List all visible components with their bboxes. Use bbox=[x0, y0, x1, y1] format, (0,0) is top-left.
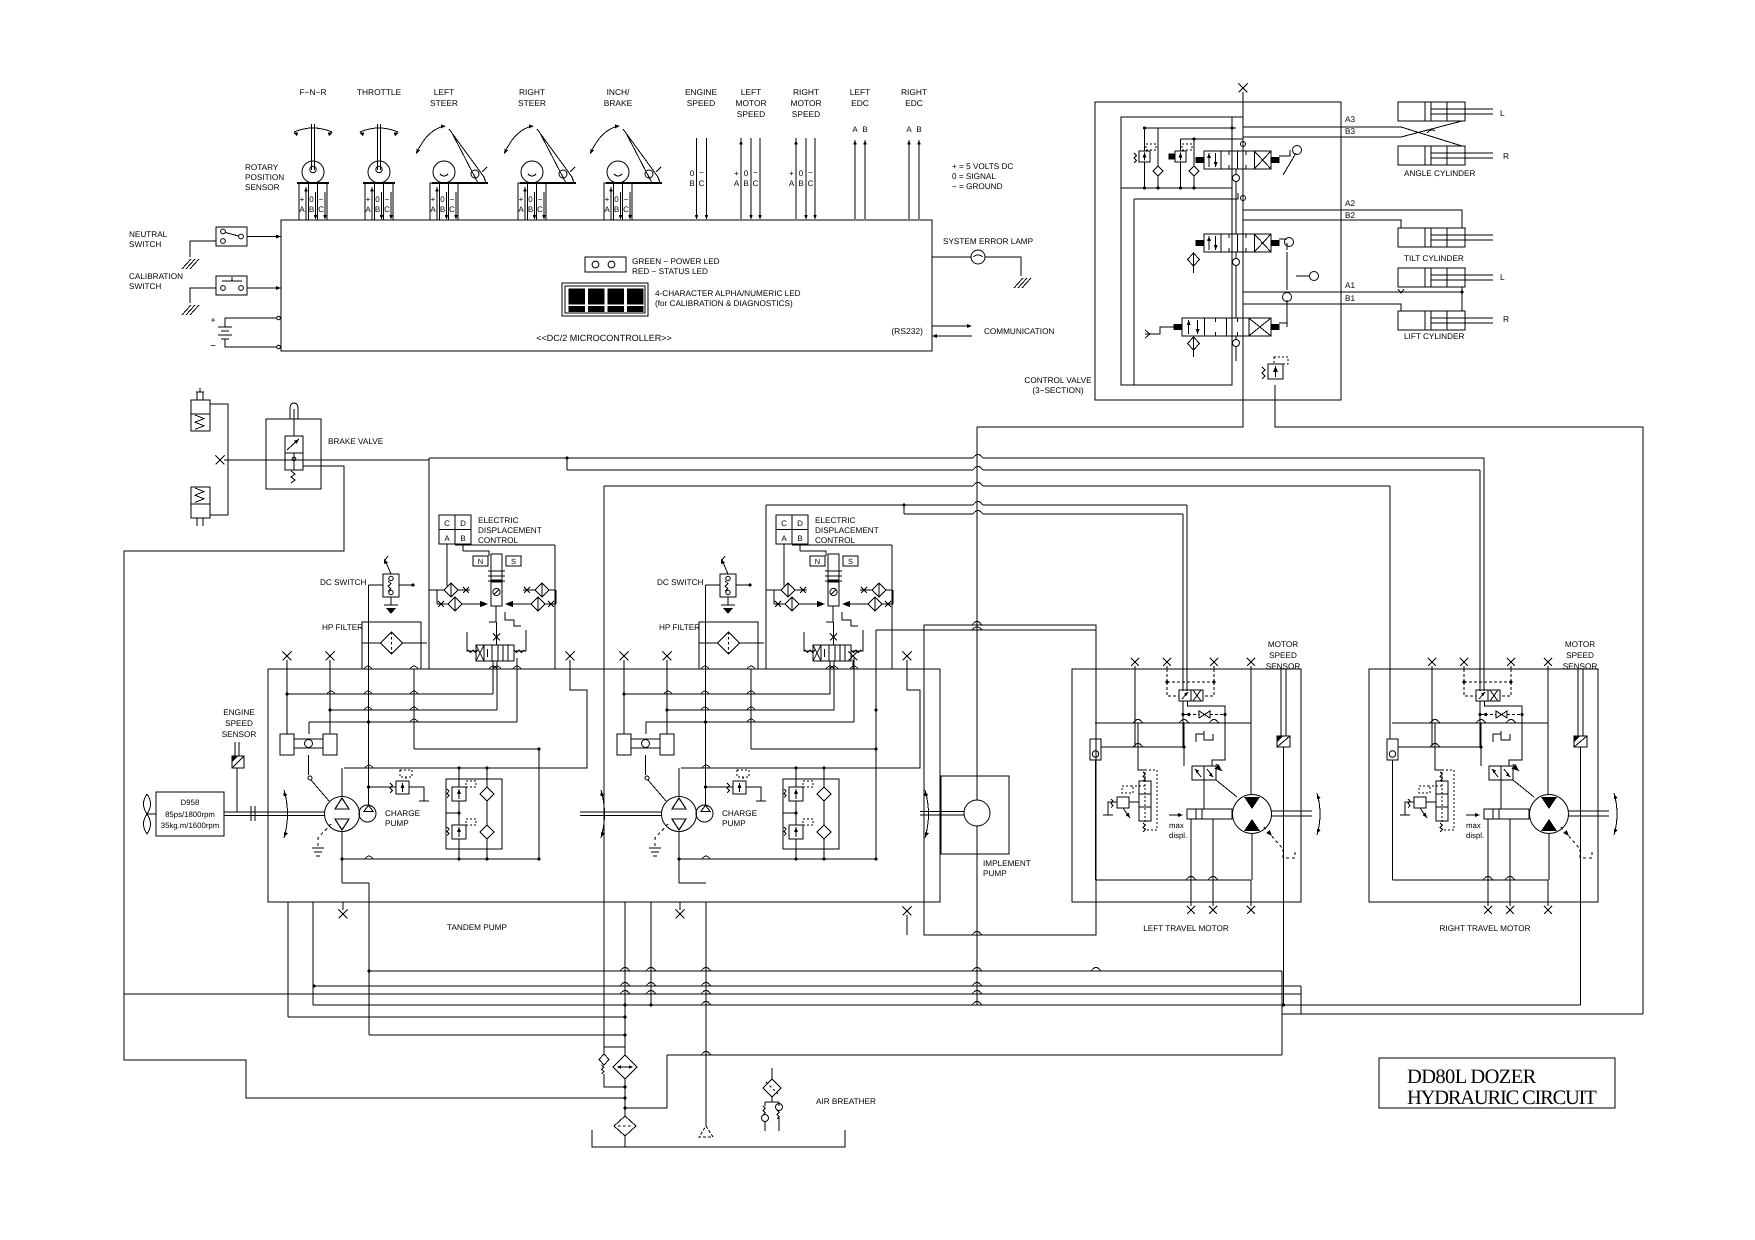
svg-text:A: A bbox=[852, 125, 858, 134]
internal divider drain x604 bbox=[603, 486, 605, 1048]
pilot steps bbox=[489, 606, 496, 622]
right rotation arcs bbox=[1614, 793, 1617, 835]
left motor M circle bbox=[1233, 795, 1272, 834]
svg-text:B: B bbox=[614, 205, 619, 214]
left bottom bus bbox=[1096, 879, 1252, 881]
row interconnects bbox=[436, 590, 438, 604]
sensor wires bbox=[610, 187, 612, 220]
DC switch left wire to bus bbox=[369, 584, 384, 586]
DC switch actuator arrow bbox=[722, 560, 728, 574]
solenoid armature bbox=[491, 554, 502, 580]
svg-text:0: 0 bbox=[690, 169, 695, 178]
pump P2 top edge hops bbox=[701, 666, 709, 669]
svg-text:+: + bbox=[605, 195, 610, 204]
sensor wires bbox=[524, 187, 526, 220]
svg-text:B: B bbox=[309, 205, 314, 214]
svg-text:B: B bbox=[862, 125, 867, 134]
svg-text:POSITION: POSITION bbox=[245, 173, 284, 182]
left displacement valve bbox=[1192, 766, 1216, 780]
svg-text:−: − bbox=[808, 168, 813, 177]
left throttle check bowtie bbox=[1199, 711, 1205, 718]
DC switch ground bbox=[390, 597, 392, 605]
left counterbalance relief bbox=[1117, 797, 1129, 808]
brake accumulator 1 bbox=[191, 400, 210, 414]
DC switch actuator arrow bbox=[385, 560, 391, 574]
implement pump box bbox=[941, 776, 1009, 854]
left left inner vertical bbox=[1134, 723, 1136, 747]
svg-text:C: C bbox=[781, 519, 787, 528]
air breather bbox=[763, 1079, 781, 1097]
svg-text:ENGINE: ENGINE bbox=[685, 87, 718, 97]
svg-text:C: C bbox=[808, 179, 814, 188]
communication port wires bbox=[932, 325, 970, 327]
svg-text:STEER: STEER bbox=[518, 98, 546, 108]
svg-text:(RS232): (RS232) bbox=[891, 326, 923, 336]
engine fan bbox=[144, 794, 151, 814]
svg-text:A3: A3 bbox=[1345, 115, 1355, 124]
svg-text:−: − bbox=[753, 168, 758, 177]
pump P1 main pump circle bbox=[325, 797, 360, 832]
pump P2 charge pump bbox=[696, 805, 713, 822]
right servo feed bbox=[1500, 780, 1502, 809]
row interconnects bbox=[773, 590, 775, 604]
brake valve V1 bbox=[266, 419, 321, 489]
svg-text:MOTOR: MOTOR bbox=[1268, 640, 1298, 649]
control valve inner box bbox=[1121, 117, 1232, 385]
position sensor box bbox=[430, 183, 458, 220]
pump P1 bus lines bbox=[287, 693, 493, 695]
left swash diagonal bbox=[1216, 780, 1237, 797]
svg-text:MOTOR: MOTOR bbox=[790, 98, 821, 108]
hand lever 2 bbox=[1279, 238, 1287, 240]
svg-text:IMPLEMENT: IMPLEMENT bbox=[983, 859, 1031, 868]
svg-text:HYDRAURIC CIRCUIT: HYDRAURIC CIRCUIT bbox=[1407, 1087, 1597, 1109]
svg-text:+: + bbox=[431, 195, 436, 204]
left pilot steps bbox=[1196, 734, 1204, 742]
pump P2 bus crossing hops bbox=[664, 691, 672, 694]
valve drop wires bbox=[829, 661, 831, 694]
svg-text:0: 0 bbox=[309, 195, 314, 204]
flushing line y486 to right motor bbox=[604, 485, 973, 487]
svg-text:SPEED: SPEED bbox=[1566, 651, 1594, 660]
svg-text:TILT CYLINDER: TILT CYLINDER bbox=[1404, 254, 1464, 263]
tank outline bbox=[592, 1130, 845, 1147]
svg-text:BRAKE VALVE: BRAKE VALVE bbox=[328, 437, 384, 446]
left sensor drain bbox=[1283, 747, 1285, 902]
svg-text:CALIBRATION: CALIBRATION bbox=[129, 272, 183, 281]
svg-text:+: + bbox=[366, 195, 371, 204]
valve section 3 angle bbox=[1204, 151, 1271, 169]
pilot feed X bbox=[830, 634, 837, 641]
left rotation arcs bbox=[1317, 793, 1320, 835]
svg-text:SWITCH: SWITCH bbox=[129, 240, 161, 249]
svg-text:ENGINE: ENGINE bbox=[223, 708, 255, 717]
svg-text:SENSOR: SENSOR bbox=[222, 730, 257, 739]
pump P1 charge pump bbox=[359, 805, 376, 822]
svg-text:A: A bbox=[906, 125, 912, 134]
left cb feed bbox=[1138, 723, 1145, 770]
svg-text:EDC: EDC bbox=[905, 98, 923, 108]
pump 2 shaft bbox=[580, 811, 662, 813]
valve side hooks bbox=[804, 632, 813, 651]
svg-text:+: + bbox=[300, 195, 305, 204]
svg-text:0: 0 bbox=[744, 169, 749, 178]
svg-text:D: D bbox=[460, 519, 466, 528]
left case drain bbox=[1264, 827, 1283, 849]
svg-text:ANGLE CYLINDER: ANGLE CYLINDER bbox=[1404, 169, 1476, 178]
pump P2 relief drain bbox=[746, 787, 761, 801]
right output shaft bbox=[1569, 810, 1610, 812]
svg-text:B3: B3 bbox=[1345, 127, 1355, 136]
svg-text:A: A bbox=[444, 534, 450, 543]
svg-text:DC SWITCH: DC SWITCH bbox=[657, 578, 703, 587]
pilot wiring upper-left bbox=[1144, 128, 1146, 151]
EDC EDC2 check diamond rows bbox=[766, 589, 781, 591]
svg-text:A1: A1 bbox=[1345, 281, 1355, 290]
svg-text:A: A bbox=[781, 534, 787, 543]
svg-text:SENSOR: SENSOR bbox=[1563, 662, 1598, 671]
accumulator wiring bbox=[210, 404, 228, 515]
left servo feed bbox=[1203, 780, 1205, 809]
pump2 drain drops bbox=[624, 902, 626, 1056]
right cb link bbox=[1426, 801, 1436, 803]
position sensor box bbox=[299, 183, 327, 220]
svg-text:R: R bbox=[1503, 151, 1509, 161]
svg-text:CONTROL: CONTROL bbox=[478, 536, 518, 545]
DC switch left wire to bus bbox=[706, 584, 721, 586]
pump1 work line A with test jog bbox=[344, 660, 587, 768]
pump P1 bus crossing hops bbox=[327, 691, 335, 694]
y1098 connect bbox=[610, 1097, 625, 1099]
svg-text:COMMUNICATION: COMMUNICATION bbox=[984, 327, 1054, 336]
pump P2 double check valve box bbox=[783, 779, 839, 849]
svg-text:0: 0 bbox=[528, 195, 533, 204]
svg-text:(3−SECTION): (3−SECTION) bbox=[1032, 386, 1083, 395]
pump P1 relief drain bbox=[409, 787, 424, 801]
svg-text:SPEED: SPEED bbox=[225, 719, 253, 728]
relief valve RV2 bbox=[1175, 151, 1186, 162]
right motor M circle bbox=[1530, 795, 1569, 834]
charge supply line y470 to right motor bbox=[565, 456, 568, 459]
bottom relief valve RV3 bbox=[1268, 364, 1283, 379]
pump P2 case drain dashes bbox=[655, 824, 668, 848]
svg-text:PUMP: PUMP bbox=[722, 819, 746, 828]
right pilot steps bbox=[1493, 734, 1501, 742]
svg-text:SWITCH: SWITCH bbox=[129, 282, 161, 291]
pilot steps bbox=[826, 606, 833, 622]
svg-text:CHARGE: CHARGE bbox=[722, 809, 758, 818]
EDC EDC2 table wires bbox=[783, 544, 785, 586]
svg-text:−: − bbox=[210, 341, 216, 352]
pump P2 charge line bbox=[705, 722, 707, 805]
svg-text:STEER: STEER bbox=[430, 98, 458, 108]
brake valve main line bbox=[224, 459, 429, 461]
svg-text:C: C bbox=[384, 205, 390, 214]
shaft rotation arc bbox=[284, 790, 288, 838]
svg-text:S: S bbox=[848, 557, 853, 566]
electric displacement control EDC1 table bbox=[439, 515, 471, 544]
pump P2 check box wires bbox=[795, 779, 797, 787]
svg-text:BRAKE: BRAKE bbox=[604, 98, 633, 108]
left counterbalance valve bbox=[1139, 781, 1151, 821]
svg-text:RIGHT TRAVEL MOTOR: RIGHT TRAVEL MOTOR bbox=[1440, 924, 1531, 933]
svg-text:C: C bbox=[537, 205, 543, 214]
right X stubs top bbox=[1431, 666, 1433, 669]
hops bottom bbox=[972, 968, 982, 972]
left shuttle valve bbox=[1090, 739, 1101, 760]
ground bbox=[1013, 278, 1031, 288]
svg-text:HP FILTER: HP FILTER bbox=[659, 623, 700, 632]
svg-text:L: L bbox=[1500, 272, 1505, 282]
right speed sensor bbox=[1574, 736, 1587, 747]
svg-text:TANDEM PUMP: TANDEM PUMP bbox=[447, 923, 507, 932]
svg-text:LEFT: LEFT bbox=[434, 87, 454, 97]
svg-text:B: B bbox=[528, 205, 533, 214]
sensor drain junctions bbox=[1282, 1003, 1285, 1006]
svg-text:GREEN − POWER LED: GREEN − POWER LED bbox=[632, 257, 720, 266]
svg-text:D: D bbox=[797, 519, 803, 528]
return filter bypass bbox=[604, 1046, 625, 1048]
pump2 work line A with test jog bbox=[681, 660, 920, 768]
svg-text:LEFT: LEFT bbox=[741, 87, 761, 97]
pump P2 pilot bus y749 bbox=[751, 748, 876, 750]
svg-text:+: + bbox=[210, 315, 215, 325]
angle cylinder L bbox=[1398, 102, 1465, 121]
pump P2 drain to bottom bbox=[679, 882, 706, 884]
solenoid armature bbox=[828, 554, 839, 580]
valve section 1 lift with float bbox=[1182, 318, 1271, 336]
EDC EDC1 table wires bbox=[446, 544, 448, 586]
right brake valve bbox=[1476, 690, 1500, 701]
pump P1 check box wires bbox=[458, 779, 460, 787]
svg-text:−: − bbox=[385, 195, 390, 204]
svg-text:ELECTRIC: ELECTRIC bbox=[815, 516, 856, 525]
tank header y1055 bbox=[667, 1054, 1282, 1056]
title block bbox=[1379, 1058, 1615, 1108]
internal gallery lines bbox=[1242, 92, 1244, 102]
implement pump circle bbox=[964, 800, 990, 826]
svg-text:D958: D958 bbox=[181, 798, 200, 807]
left brake valve outlet bbox=[1188, 701, 1226, 766]
sensor wires bbox=[371, 187, 373, 220]
valve section 2 tilt bbox=[1204, 234, 1271, 252]
position sensor box bbox=[604, 183, 632, 220]
pump P2 main pump circle bbox=[662, 797, 697, 832]
left vertical feeds bbox=[1134, 669, 1136, 723]
electric displacement control EDC2 table bbox=[776, 515, 808, 544]
drain line y971 bbox=[367, 969, 370, 972]
relief valve RV1 bbox=[1139, 151, 1150, 162]
svg-text:RED − STATUS LED: RED − STATUS LED bbox=[632, 267, 708, 276]
right drain jog bbox=[1281, 971, 1283, 1014]
supply line y514 to left motor bbox=[902, 503, 905, 506]
neutral switch wiring bbox=[190, 241, 216, 257]
pilot feed X bbox=[493, 634, 500, 641]
svg-text:A: A bbox=[518, 205, 524, 214]
right cb feed bbox=[1435, 723, 1442, 770]
lift lever bbox=[1279, 322, 1287, 324]
svg-text:0: 0 bbox=[799, 169, 804, 178]
left cb link bbox=[1129, 801, 1139, 803]
right brake valve outlet bbox=[1485, 701, 1523, 766]
solenoid N box bbox=[473, 556, 488, 566]
LED indicator box bbox=[585, 257, 626, 272]
tank header drop bbox=[624, 1055, 667, 1108]
ground bbox=[181, 305, 199, 315]
X stub below implement loop bbox=[906, 915, 908, 935]
svg-text:+: + bbox=[789, 169, 794, 178]
lift cylinder R bbox=[1398, 311, 1465, 330]
svg-text:CONTROL VALVE: CONTROL VALVE bbox=[1024, 376, 1092, 385]
svg-text:A: A bbox=[299, 205, 305, 214]
right shuttle link line bbox=[1398, 746, 1481, 748]
svg-text:SENSOR: SENSOR bbox=[1266, 662, 1301, 671]
svg-text:A: A bbox=[430, 205, 436, 214]
svg-text:35kg.m/1600rpm: 35kg.m/1600rpm bbox=[161, 821, 220, 830]
svg-text:SYSTEM ERROR LAMP: SYSTEM ERROR LAMP bbox=[943, 237, 1034, 246]
svg-text:AIR BREATHER: AIR BREATHER bbox=[816, 1097, 876, 1106]
X plug on brake line bbox=[216, 456, 225, 465]
svg-text:B: B bbox=[689, 179, 694, 188]
svg-text:R: R bbox=[1503, 314, 1509, 324]
pump P2 yoke wires with X stubs bbox=[623, 660, 625, 734]
right case drain bbox=[1561, 827, 1580, 849]
strainer to tank bbox=[624, 1136, 626, 1147]
DC switch wire bbox=[736, 584, 750, 586]
left output shaft bbox=[1272, 810, 1313, 812]
right bottom bus bbox=[1393, 879, 1549, 881]
tank return line to right edge bbox=[1274, 385, 1276, 400]
svg-text:A: A bbox=[734, 179, 740, 188]
svg-text:C: C bbox=[444, 519, 450, 528]
svg-text:B1: B1 bbox=[1345, 294, 1355, 303]
pump P2 work lines bbox=[678, 768, 680, 797]
svg-text:SPEED: SPEED bbox=[792, 109, 820, 119]
svg-text:DISPLACEMENT: DISPLACEMENT bbox=[815, 526, 879, 535]
pump P2 charge relief valve bbox=[733, 781, 746, 794]
drain manifold y1005 bbox=[313, 1004, 1581, 1006]
pump P1 drain to bottom bbox=[342, 882, 369, 884]
svg-text:0: 0 bbox=[375, 195, 380, 204]
main shaft bbox=[224, 811, 325, 813]
left max displacement servo bbox=[1187, 809, 1232, 819]
svg-text:ROTARY: ROTARY bbox=[245, 163, 279, 172]
sensor wires bbox=[436, 187, 438, 220]
microcontroller U1 box bbox=[281, 220, 932, 351]
right counterbalance relief bbox=[1414, 797, 1426, 808]
tandem pump box bbox=[268, 669, 940, 902]
svg-text:MOTOR: MOTOR bbox=[735, 98, 766, 108]
svg-text:CHARGE: CHARGE bbox=[385, 809, 421, 818]
solenoid S box bbox=[843, 556, 858, 566]
svg-text:85ps/1800rpm: 85ps/1800rpm bbox=[165, 810, 215, 819]
EDC EDC2 enclosure lines bbox=[765, 505, 767, 669]
svg-text:max: max bbox=[1466, 821, 1481, 830]
pump P2 swash yoke bbox=[617, 734, 631, 755]
check diamonds below valves bbox=[1188, 253, 1200, 266]
crossover to angle cylinders bbox=[1401, 127, 1462, 146]
svg-text:MOTOR: MOTOR bbox=[1565, 640, 1595, 649]
svg-text:SPEED: SPEED bbox=[737, 109, 765, 119]
supply line y505 to left motor bbox=[766, 504, 973, 506]
float detent symbol bbox=[1145, 327, 1182, 334]
right swash diagonal bbox=[1513, 780, 1534, 797]
svg-text:EDC: EDC bbox=[851, 98, 869, 108]
svg-text:4-CHARACTER ALPHA/NUMERIC LED: 4-CHARACTER ALPHA/NUMERIC LED bbox=[655, 289, 801, 298]
ground bbox=[181, 259, 199, 269]
EDC EDC2 proportional valve bbox=[813, 645, 851, 661]
hand lever bbox=[1279, 150, 1290, 156]
engine D958 box bbox=[156, 792, 224, 836]
svg-text:A2: A2 bbox=[1345, 199, 1355, 208]
svg-text:B: B bbox=[797, 534, 802, 543]
svg-text:L: L bbox=[1500, 108, 1505, 118]
left bus hops bbox=[1133, 720, 1143, 724]
svg-text:DD80L DOZER: DD80L DOZER bbox=[1407, 1066, 1537, 1088]
lever linkages bbox=[1296, 275, 1310, 277]
right displacement valve bbox=[1489, 766, 1513, 780]
left X stubs top bbox=[1134, 666, 1136, 669]
svg-text:−: − bbox=[319, 195, 324, 204]
svg-text:N: N bbox=[815, 557, 820, 566]
right bottom port stubs bbox=[1487, 819, 1489, 906]
svg-text:A: A bbox=[365, 205, 371, 214]
svg-text:LEFT TRAVEL MOTOR: LEFT TRAVEL MOTOR bbox=[1143, 924, 1229, 933]
brake accumulator 2 bbox=[191, 487, 210, 504]
svg-text:displ.: displ. bbox=[1169, 831, 1187, 840]
pump P1 pilot bus y749 bbox=[414, 748, 539, 750]
svg-text:PUMP: PUMP bbox=[385, 819, 409, 828]
svg-text:B: B bbox=[440, 205, 445, 214]
pump P1 double check valve box bbox=[446, 779, 502, 849]
svg-text:C: C bbox=[318, 205, 324, 214]
implement supply riser bbox=[976, 427, 978, 800]
brake valve drain line bbox=[124, 466, 610, 1098]
svg-text:− = GROUND: − = GROUND bbox=[952, 182, 1003, 191]
pump2 work line B bbox=[679, 858, 876, 860]
implement pump loop bbox=[924, 625, 1096, 935]
svg-text:SENSOR: SENSOR bbox=[245, 183, 280, 192]
svg-text:B: B bbox=[375, 205, 380, 214]
calibration switch wiring bbox=[190, 288, 216, 303]
DC switch ground bbox=[727, 597, 729, 605]
svg-text:0: 0 bbox=[614, 195, 619, 204]
right vertical feeds bbox=[1431, 669, 1433, 723]
right brake valve left port drop bbox=[1479, 701, 1481, 747]
battery wiring bbox=[225, 318, 277, 327]
return filter diamond bbox=[613, 1055, 637, 1079]
right bus hops bbox=[1430, 720, 1440, 724]
drain line y994 bbox=[124, 993, 1301, 995]
svg-text:B: B bbox=[798, 179, 803, 188]
svg-text:−: − bbox=[624, 195, 629, 204]
EDC EDC1 check diamond rows bbox=[429, 589, 444, 591]
right top bus bbox=[1392, 722, 1548, 724]
svg-text:LEFT: LEFT bbox=[850, 87, 870, 97]
pump P1 case drain dashes bbox=[318, 824, 331, 848]
svg-text:B: B bbox=[916, 125, 921, 134]
svg-text:C: C bbox=[623, 205, 629, 214]
sensor wires bbox=[305, 187, 307, 220]
svg-text:NEUTRAL: NEUTRAL bbox=[129, 230, 168, 239]
svg-text:SPEED: SPEED bbox=[687, 98, 715, 108]
svg-text:RIGHT: RIGHT bbox=[519, 87, 545, 97]
svg-text:displ.: displ. bbox=[1466, 831, 1484, 840]
pump P1 charge relief valve bbox=[396, 781, 409, 794]
DC switch wire bbox=[399, 584, 413, 586]
left shuttle link line bbox=[1101, 746, 1184, 748]
lift cylinder L bbox=[1398, 268, 1465, 287]
